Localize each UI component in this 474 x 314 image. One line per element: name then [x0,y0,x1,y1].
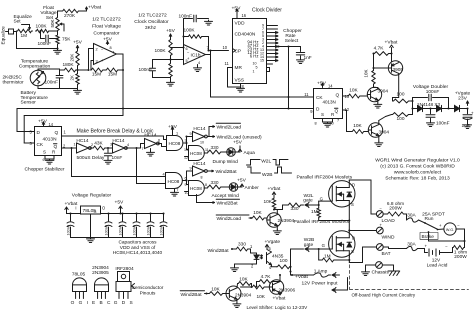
wire selected 47Hz tap [267,46,289,48]
svg-text:Wind2Load: Wind2Load [217,216,242,222]
resistor R29 1 ohm 200W [453,246,465,250]
svg-text:10K: 10K [239,277,248,283]
svg-text:Q: Q [336,93,340,99]
svg-text:Compensation: Compensation [19,63,51,69]
svg-text:330: 330 [291,206,299,212]
terminal WIND [376,227,383,234]
AND gate U5c HC08 [166,173,183,189]
svg-text:CK: CK [37,142,44,148]
svg-text:Chassis: Chassis [372,270,390,276]
svg-text:S: S [351,202,354,207]
svg-text:HC14: HC14 [193,126,206,132]
svg-text:G D S: G D S [114,300,134,306]
wire opto LED return to ground [256,259,258,264]
wire bypass ground rail [71,237,164,239]
wire drain 2 to WIND bus [348,230,350,232]
wire thermistor top row [37,69,39,70]
potentiometer R3 50K float set [56,17,59,32]
ground GND7 [49,159,51,160]
power +5V 4013b pin 14 [322,83,324,88]
svg-text:12V Power Input: 12V Power Input [302,281,339,287]
power +5V LED2 [238,186,242,188]
svg-text:200W: 200W [389,205,402,211]
wire logic branch vertical [136,148,138,184]
connector 12V power input [329,274,331,276]
svg-text:100nF: 100nF [159,224,163,235]
resistor R12 100K to +5V [169,39,172,57]
transistor Q8 2N3904 [226,286,241,301]
svg-text:HC14: HC14 [144,133,157,139]
svg-text:S: S [351,249,354,254]
svg-text:10K: 10K [253,210,262,216]
svg-text:100nF: 100nF [426,89,440,95]
svg-text:Clock Divider: Clock Divider [252,8,282,14]
svg-text:E B C: E B C [92,300,112,306]
svg-text:8: 8 [110,46,112,50]
svg-text:O G I: O G I [71,300,90,306]
svg-text:100nF: 100nF [146,224,150,235]
svg-text:WIND: WIND [382,235,395,241]
svg-text:6 Hz: 6 Hz [250,54,259,59]
wire MR loop to ground [228,67,233,69]
svg-text:30A: 30A [407,213,416,219]
svg-text:4013N: 4013N [323,100,336,105]
wire Q output make-before-break line [62,135,164,137]
fuse F1 30A [405,213,407,215]
svg-text:100: 100 [280,258,288,264]
ground GND5 [240,87,242,88]
svg-text:BAT: BAT [382,251,391,257]
svg-text:W.G.: W.G. [446,228,454,232]
svg-text:+5V: +5V [103,36,113,42]
op-amp U1a 1/2 TLC2272 float voltage comparator [94,44,117,65]
resistor R7 20K [76,50,79,67]
svg-text:330: 330 [211,180,219,186]
svg-text:D: D [37,130,41,136]
svg-text:Make Before Break Delay & Logi: Make Before Break Delay & Logic [77,129,154,135]
svg-text:Wind2Load: Wind2Load [217,125,242,131]
wire brake to battery bus [428,232,430,241]
svg-text:8: 8 [315,122,317,126]
svg-text:www.solorb.com/elect: www.solorb.com/elect [394,170,442,176]
svg-text:+5V: +5V [232,6,242,12]
svg-text:O: O [102,206,105,211]
svg-text:4.7K: 4.7K [261,274,272,280]
ground GND8 [107,159,109,160]
power +5V clock divider pin 16 [236,9,238,14]
svg-text:Equalize: Equalize [1,26,7,45]
power +Vbat Q7 emitter [279,293,281,296]
resistor R24 10K pullup [272,198,275,210]
svg-text:75K: 75K [62,37,71,43]
svg-text:+5V: +5V [168,124,178,130]
resistor R28 6.8 ohm 300W dump load [383,213,386,215]
resistor R27 1M gate 2 [318,249,320,260]
node +Vgate output [459,108,468,110]
wire source 2 to BAT bus [348,257,350,262]
ground GND14 regulator [90,214,92,238]
wire Q1 collector [377,88,379,90]
battery BT1 12V lead acid [428,249,430,256]
svg-text:10nF: 10nF [112,155,123,161]
svg-text:1/2 TLC2272: 1/2 TLC2272 [92,17,121,23]
waveform W2B [248,167,292,173]
svg-text:10K: 10K [364,69,369,77]
node Wind2Load-bar input [216,214,249,216]
svg-text:100nF: 100nF [132,224,136,235]
wire source down to WIND bus [348,207,350,231]
svg-text:7: 7 [337,119,339,123]
wire chopper clock bus [211,96,314,98]
svg-text:30A: 30A [407,242,416,248]
svg-text:23V: 23V [458,95,467,101]
svg-text:Clock Oscillator: Clock Oscillator [134,19,169,25]
svg-text:+Vbat: +Vbat [88,5,102,11]
waveform W2L [247,160,289,166]
svg-text:100: 100 [397,116,405,122]
resistor R34 10K collector [238,282,252,286]
capacitor C15 100nF bypass [163,214,165,222]
svg-text:HC14: HC14 [112,138,125,144]
svg-text:43K: 43K [94,141,103,147]
capacitor C4 100nF timing [153,59,171,61]
fuse F2 30A battery [383,246,388,248]
svg-text:100K: 100K [184,28,196,34]
power +5V 4013 pin 14 [43,122,45,127]
ground GND6 [300,59,302,60]
resistor R22 100 [392,113,410,117]
svg-text:G: G [94,210,97,214]
svg-text:11: 11 [225,61,230,66]
svg-text:1: 1 [74,143,76,147]
svg-text:4.7K: 4.7K [374,45,385,51]
svg-text:Off-board High Current Circuit: Off-board High Current Circuitry [352,293,416,298]
resistor R4 270K [62,9,80,12]
svg-text:10K: 10K [349,88,358,94]
svg-text:10: 10 [223,45,228,50]
svg-text:Parallel IRF2804 Mosfets: Parallel IRF2804 Mosfets [297,175,353,181]
resistor R1 1M equalize pot [17,29,33,32]
resistor R25 330 gate W2L [288,203,302,207]
node Wind2Load-bar output [207,136,209,138]
svg-text:W2B: W2B [262,172,273,178]
resistor R30 330 opto [236,247,249,251]
wire 5V rail [101,213,164,215]
svg-text:S: S [321,112,324,117]
svg-text:Capacitors across: Capacitors across [118,240,157,246]
LED D1 Aqua dump wind [222,151,227,153]
power +5V HC08 pin 1 [172,127,174,132]
wire drain to LOAD bus [348,179,350,182]
capacitor C1 100nF [40,31,42,39]
svg-text:2K@25C: 2K@25C [3,75,23,81]
capacitor C8 100nF doubler bottom [430,109,432,114]
AND gate U5a HC08 make-before-break [167,136,183,151]
svg-text:500uS Delay: 500uS Delay [77,155,105,161]
svg-text:Set: Set [14,19,22,25]
svg-text:VDD: VDD [235,21,246,27]
fuse F3 1 Amp [314,273,329,277]
MOSFET Q5 IRF2804 [318,201,320,205]
resistor R21 10K [352,130,365,134]
svg-text:HC08: HC08 [169,141,181,146]
svg-text:2: 2 [91,143,93,147]
svg-text:Voltage Regulator: Voltage Regulator [72,193,112,199]
svg-text:gate: gate [303,198,313,204]
transistor Q3 2N3904 [365,131,369,133]
svg-text:10K: 10K [353,123,362,129]
svg-text:+5V: +5V [317,81,327,87]
AND gate U5d HC08 accept wind [189,181,205,196]
svg-text:CD4040N: CD4040N [235,32,256,38]
resistor R8 2K [76,73,79,85]
IC U2 CD4040N clock divider [233,19,267,84]
svg-text:Dump Wind: Dump Wind [213,159,239,165]
wire Qbar output [62,147,77,149]
svg-text:+Vbat: +Vbat [268,186,281,192]
svg-text:11: 11 [304,92,309,97]
transistor Q1 2N3904 [361,95,368,97]
svg-text:HC14: HC14 [193,161,206,167]
svg-text:10: 10 [200,140,204,144]
svg-text:6: 6 [158,139,160,143]
resistor R10 15M [106,68,119,72]
wire doubler input bus [410,100,413,102]
svg-text:180K: 180K [63,62,75,68]
svg-text:HC14: HC14 [76,138,89,144]
diode D4 1N4148 [437,105,442,111]
wire to op-amp [78,69,89,71]
wire divider node [77,69,78,71]
svg-text:1 Amp: 1 Amp [314,269,328,275]
capacitor C6 10nF [106,147,113,149]
svg-text:Wind2Bat: Wind2Bat [181,292,203,298]
svg-text:HC08,HC14,4013,4040: HC08,HC14,4013,4040 [113,250,163,256]
svg-text:100nF: 100nF [436,121,450,127]
svg-text:Accept Wind: Accept Wind [212,193,240,199]
resistor R15 330 dump LED [204,152,208,154]
ground GND1 [56,47,58,49]
svg-text:+5V: +5V [115,200,125,206]
capacitor C12 100nF bypass [122,214,124,222]
svg-text:Wind2Bat: Wind2Bat [217,201,239,207]
resistor R23 10K [252,216,266,220]
svg-text:LOAD: LOAD [382,218,396,224]
wire Q8 collector to node [241,286,252,288]
resistor R32 4.7K [259,280,273,284]
svg-text:100nF: 100nF [38,41,52,47]
svg-text:9: 9 [190,167,192,171]
svg-text:2N3906: 2N3906 [279,288,296,294]
wire left loop to D input [16,109,18,132]
svg-text:10K: 10K [257,294,266,300]
wire oscillator output down to clock bus [210,51,212,98]
ground GND11 [378,135,380,141]
svg-text:VSS: VSS [235,78,245,84]
MOSFET Q6 IRF2804 [319,248,333,250]
svg-text:Chopper Stabilizer: Chopper Stabilizer [25,167,65,173]
svg-text:Q: Q [55,130,59,136]
svg-text:+5V: +5V [38,119,48,125]
node doubler mid2 [441,108,455,110]
svg-text:Lead Acid: Lead Acid [427,263,448,269]
svg-text:HC08: HC08 [190,186,202,191]
ground GND4 [170,78,172,82]
svg-text:330: 330 [211,145,219,151]
svg-text:Pinouts: Pinouts [140,290,156,296]
svg-text:270K: 270K [64,13,76,19]
wire S R to ground [44,156,46,160]
transistor Q7 2N3906 PNP [269,280,283,294]
svg-text:9: 9 [190,132,192,136]
wire thermistor bottom [37,86,39,89]
ground GND10 [377,100,379,103]
power +5V LED1 [235,151,240,153]
svg-text:2: 2 [96,48,98,52]
capacitor C10 100nF bypass [70,214,72,222]
IC U3b 4013N chopper flip-flop [314,89,343,119]
resistor R18 10K pullup [372,70,375,86]
svg-text:+5V: +5V [166,28,176,34]
ground GND17 [236,299,238,302]
svg-text:VDD and VSS of: VDD and VSS of [120,245,156,251]
ground GND16 [234,267,236,268]
resistor R26 1M gate [313,204,320,206]
svg-text:5: 5 [256,66,258,70]
ground GND12 [430,122,432,123]
resistor R5 75K [56,35,59,45]
svg-text:HC08: HC08 [190,151,202,156]
svg-text:Wind2Bat: Wind2Bat [208,248,230,254]
svg-text:D: D [316,107,320,113]
wire Q3 collector [378,121,380,125]
svg-text:Sensor: Sensor [21,100,37,106]
wire tap down to clock line [288,47,290,98]
wire left loop to CK input [23,116,25,144]
op-amp U1b IC1b [184,45,206,65]
svg-text:+5V: +5V [237,178,247,184]
svg-text:IC1b: IC1b [191,53,201,59]
node doubler mid1 [422,108,437,110]
wire gate1 output [184,142,187,144]
LED D2 Amber accept wind [222,186,230,188]
wire Q4 collector node [276,210,278,215]
svg-text:Wind2Load (unused): Wind2Load (unused) [217,134,262,140]
svg-text:3: 3 [110,143,112,147]
power +Vbat 3905 [390,53,392,55]
wire opto to W2B gate node [290,249,292,275]
wire base node to 3905 [372,67,374,69]
svg-text:100nF: 100nF [139,67,153,73]
capacitor C9 1uF [467,109,469,114]
wire comparator output down [122,70,124,116]
resistor R9 15M [91,68,104,72]
svg-text:15M: 15M [108,72,117,78]
svg-text:S: S [43,150,46,155]
svg-text:1M: 1M [324,254,331,260]
ground GND3 [208,20,210,21]
svg-text:14: 14 [328,84,333,89]
resistor R14 43K [90,147,93,149]
wind generator G1 W.G. [438,228,444,231]
svg-text:2N3905: 2N3905 [92,270,109,276]
svg-text:Comparator: Comparator [93,30,120,36]
connector W2L gate [302,204,304,206]
svg-text:15: 15 [260,59,264,63]
connector J1 Equalize input [9,29,14,34]
svg-text:8: 8 [201,175,203,179]
svg-text:78L05: 78L05 [72,272,86,278]
svg-text:1: 1 [253,70,255,74]
ground GND2 [77,85,79,89]
wire op-amp output to feedback node [117,53,124,55]
svg-text:D: D [352,183,355,188]
svg-text:HC08: HC08 [168,179,180,184]
svg-text:100: 100 [397,92,405,98]
svg-text:I: I [75,206,76,211]
svg-text:Level Shifter: Logic to 12-23V: Level Shifter: Logic to 12-23V [247,305,309,310]
svg-text:+5V: +5V [233,140,243,146]
capacitor C14 100nF bypass [150,214,152,222]
regulator U6 78L05 [67,213,81,215]
transistor Q4 2N3904 level shifter [265,217,267,219]
svg-text:+Vbat: +Vbat [273,296,286,302]
svg-text:100K: 100K [155,48,167,54]
wire delay feedback line [24,115,123,117]
svg-text:16: 16 [242,13,247,18]
svg-text:1M: 1M [21,33,28,39]
svg-text:10K: 10K [264,199,273,205]
svg-text:WGR1 Wind Generator Regulator: WGR1 Wind Generator Regulator V1.0 [375,158,460,164]
svg-text:Select: Select [285,38,299,44]
wire delay to logic [126,147,137,149]
svg-text:Parallel IRF2804 Mosfets: Parallel IRF2804 Mosfets [294,219,350,225]
resistor R2 100K [36,29,50,32]
svg-text:+Vbat: +Vbat [385,40,398,46]
svg-text:Wind2Bat: Wind2Bat [216,169,238,175]
svg-text:1: 1 [113,51,115,55]
svg-text:MR: MR [235,65,243,71]
LED D6 opto input [249,248,251,250]
ground GND13 [467,124,469,125]
svg-text:100nF: 100nF [118,224,122,235]
svg-text:1: 1 [176,132,178,136]
power +5V oscillator [170,34,172,39]
svg-text:Q: Q [335,109,339,115]
wire Q7 collector to gate node [279,275,281,282]
thermistor RT1 2K@25C [30,70,46,86]
svg-text:Float Voltage: Float Voltage [92,24,121,30]
transistor Q2 2N3905 PNP [388,61,402,75]
svg-text:D: D [352,236,355,241]
resistor R13 100K to ground [169,63,172,78]
svg-text:Amber: Amber [245,185,260,191]
svg-text:7: 7 [177,188,179,192]
resistor R19 4.7K [373,54,375,69]
connector power return [335,287,336,292]
svg-text:15M: 15M [92,72,101,78]
svg-text:7: 7 [142,147,144,151]
svg-text:20K: 20K [70,54,75,62]
node Wind2Load unused output [209,136,215,138]
ground GND9 [327,122,329,123]
terminal BAT [376,244,383,251]
terminal LOAD [376,211,383,218]
node Wind2Bat output [207,170,213,172]
wire equalize bottom loop [16,32,18,49]
connector W2B gate [294,248,304,250]
svg-text:2N3904: 2N3904 [278,218,295,224]
